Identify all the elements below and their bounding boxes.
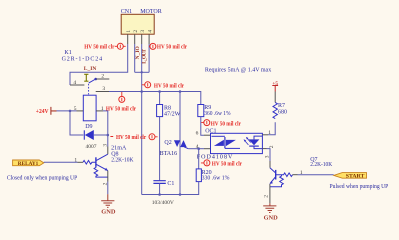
svg-text:3: 3 [140,30,146,33]
svg-text:Requires 5mA @ 1.4V max: Requires 5mA @ 1.4V max [205,67,271,73]
svg-text:Q2: Q2 [164,140,171,146]
transistor Q7 base bar [275,170,277,180]
transistor Q7 internal resistor [270,175,283,187]
wire +5 to R7 [274,92,276,103]
wire CN1 pin4 down [148,44,150,72]
svg-text:HV 50 mil clr: HV 50 mil clr [211,120,241,127]
svg-text:K1: K1 [64,50,71,56]
transistor Q8 collector diagonal [96,154,107,160]
svg-text:3: 3 [103,144,109,147]
diode D9 cathode bar [83,130,85,139]
relay pin 4 stub [70,84,84,86]
wire down to D9 cathode [70,111,83,135]
triac Q2 right triangle [180,140,187,147]
HV clearance marker F circle [201,120,210,126]
svg-text:N_IO: N_IO [135,46,141,60]
wire RELAY1 to Q8 base [44,161,78,163]
relay coil pin 5 stub [77,110,84,112]
wire R7 to OC1 pin1 [268,122,275,135]
triac Q2 wire from bus [179,91,181,195]
CN1 pin 1 stub [127,34,129,44]
HV clearance marker E circle [201,160,210,166]
transistor Q7 base link and squiggle [276,173,293,177]
OC1 LED cathode bar [249,145,259,147]
OC1 light arrow 2 [247,138,251,142]
wire R8 to C1 [159,117,161,181]
svg-text:2: 2 [264,195,270,198]
OC1 LED top link [254,136,262,139]
svg-text:680: 680 [278,110,287,116]
svg-text:L_OUT: L_OUT [142,49,148,64]
diode D9 triangle [85,130,94,140]
svg-text:D9: D9 [85,124,92,130]
HV clearance marker C circle [142,82,151,88]
port START [334,173,367,180]
junction bottom bus/C1 [158,193,161,196]
wire C1 to bottom bus [159,183,161,194]
svg-text:G2R-1-DC24: G2R-1-DC24 [62,56,103,62]
svg-text:1: 1 [74,158,77,164]
Q7 collector pin stub [269,161,271,168]
resistor R7 zigzag [273,102,277,118]
resistor R8 body [157,105,163,117]
Q7 base pin stub [293,174,298,176]
wire D9 anode to collector line [94,134,108,136]
junction bus/Q2 [179,90,182,93]
OC1 LED bottom link [254,146,262,149]
Q8 base pin stub [78,161,84,163]
svg-text:6: 6 [196,131,199,137]
OC1 photo-triac right triangle [226,140,236,146]
svg-text:1: 1 [268,130,271,136]
svg-text:HV 50 mil clr: HV 50 mil clr [212,161,242,168]
capacitor C1 plates [153,181,165,184]
Q7 emitter pin stub [269,184,271,203]
svg-text:+24V: +24V [36,108,49,115]
transistor Q7 collector diagonal [270,168,276,173]
svg-text:4007: 4007 [86,144,97,150]
svg-text:HV 50 mil clr: HV 50 mil clr [157,44,187,51]
resistor R20 body [196,169,201,182]
OC1 photo-triac bottom rail [225,147,240,149]
svg-text:2: 2 [101,74,104,80]
wire R20 to bottom bus [142,182,199,195]
wire OC1 pin2 to Q7 collector [267,149,271,161]
OC1 pin 6 stub [204,134,211,136]
svg-text:2: 2 [133,30,139,33]
wire Q8 emitter to GND [107,182,109,195]
svg-text:BTA16: BTA16 [160,151,178,157]
HV clearance marker B circle [149,43,156,49]
svg-text:GND: GND [264,216,279,222]
svg-text:CN1: CN1 [121,9,132,15]
OC1 photo-triac top rail [212,135,225,137]
svg-text:Closed only when pumping UP: Closed only when pumping UP [7,176,78,182]
svg-text:HV 50 mil clr: HV 50 mil clr [84,44,114,51]
svg-text:HV 50 mil clr: HV 50 mil clr [106,105,136,112]
OC1 light arrow 1 [245,141,249,145]
transistor Q8 emitter arrow [105,168,108,171]
svg-text:47/2W: 47/2W [164,112,181,118]
optocoupler OC1 box [211,133,263,153]
triac Q2 gate [184,147,188,149]
svg-text:2.2K-10K: 2.2K-10K [111,158,134,164]
wire R9 to OC1 pin 6 [201,117,204,136]
svg-text:2.2K-10K: 2.2K-10K [310,162,332,168]
svg-text:GND: GND [101,209,116,215]
Q8 emitter pin stub [107,171,109,182]
Q8 collector pin stub [107,147,109,155]
wire coil pin1 down to Q8 collector [103,111,108,147]
junction gate/R20/OC1 pin4 [197,147,200,150]
transistor Q7 emitter diagonal [270,177,276,184]
resistor R8 wire from bus [159,92,161,105]
OC1 pin 2 stub [262,148,266,150]
svg-text:3: 3 [264,155,270,158]
power port +5 bar [272,86,278,92]
resistor R20 wire from junction [198,149,200,169]
svg-text:R7: R7 [278,103,285,109]
svg-text:360 .6w 1%: 360 .6w 1% [204,111,230,117]
svg-text:103/400V: 103/400V [152,200,174,206]
relay fixed contact (olive) [84,74,88,81]
wire CN1 pin1 to relay pin4 [70,44,128,85]
relay coil box [83,95,96,121]
svg-text:MOTOR: MOTOR [140,9,162,15]
OC1 pin 1 stub [262,134,268,136]
relay lever [89,79,96,83]
resistor R9 body [198,105,204,117]
CN1 pin 2 stub [134,34,136,44]
HV clearance marker G circle [110,134,157,140]
svg-text:4: 4 [147,30,153,33]
junction D9/collector [107,134,110,137]
transistor Q8 emitter diagonal [96,164,107,170]
OC1 LED triangle [249,139,260,145]
transistor Q8 base resistor squiggle [83,161,96,165]
wire joining pins 2,3,4 [135,71,149,73]
wire gate to junction [188,148,204,150]
wire +24V to coil [57,110,77,112]
svg-text:Pulsed when pumping UP: Pulsed when pumping UP [330,184,389,190]
HV clearance marker D circle with stem [119,92,125,103]
transistor Q7 emitter arrow [270,181,273,184]
junction bus/R8 [158,90,161,93]
CN1 pin 4 stub [148,34,150,44]
relay coil pin 1 stub [96,110,103,112]
svg-text:START: START [346,174,365,180]
svg-text:1: 1 [126,30,132,33]
ground GND left [101,194,114,207]
OC1 pin 4 stub [204,148,211,150]
svg-text:L_IN: L_IN [84,66,97,72]
relay actuation dashed link [88,84,90,95]
OC1 photo-triac left triangle [214,140,224,146]
svg-text:3: 3 [102,86,105,92]
relay pin 2 stub [96,78,110,80]
junction bottom bus/Q2 [179,193,182,196]
transistor Q8 internal resistor [94,167,108,177]
relay pin 3 stub [96,91,109,93]
junction pins joint [141,71,143,73]
svg-text:4: 4 [73,80,76,86]
triac Q2 left triangle [174,140,180,147]
svg-text:RELAY1: RELAY1 [18,161,39,167]
svg-text:C1: C1 [167,181,174,187]
wire Q7 base to START [298,174,334,176]
OC1 photo-triac center bar [224,137,226,148]
junction +24V/D9 [69,110,72,113]
port RELAY1 [13,160,44,167]
power port +24V bar [51,107,57,115]
wire trunk pin3 down to bottom bus [141,44,143,195]
HV clearance marker A circle [115,43,126,49]
transistor Q8 base bar [95,157,97,167]
connector CN1 body [121,14,154,34]
wire CN1 pin2 down [134,44,136,72]
junction bus/trunk [140,90,143,93]
wire main bus (relay pin3 to R9) [109,92,201,105]
CN1 pin 3 stub [141,34,143,44]
ground GND right [263,203,276,212]
relay lever tip dot [94,78,97,81]
svg-text:330 .6w 1%: 330 .6w 1% [202,176,230,182]
svg-text:2: 2 [269,145,275,148]
svg-text:HV 50 mil clr: HV 50 mil clr [116,134,146,141]
svg-text:HV 50 mil clr: HV 50 mil clr [154,83,184,90]
